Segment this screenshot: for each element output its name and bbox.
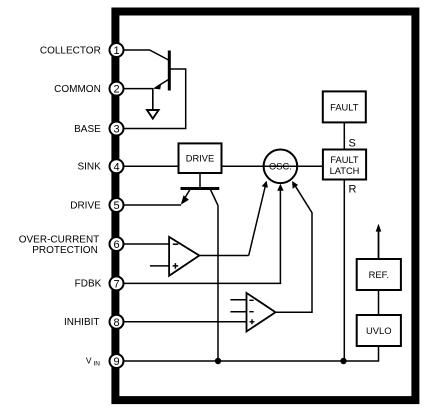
IC body border <box>115 12 415 401</box>
wire pin6 to comparator A inverting input <box>124 243 169 245</box>
wire Q1 base to pin3 <box>124 69 186 129</box>
pin 9 label VIN <box>86 356 100 368</box>
wire REF to UVLO <box>378 290 380 315</box>
transistor Q1 <box>153 51 170 91</box>
pin 3 <box>110 122 124 136</box>
stub wire comparator A non-inverting input <box>150 265 169 267</box>
svg-text:BASE: BASE <box>74 124 101 135</box>
UVLO box <box>357 315 401 346</box>
svg-text:R: R <box>349 184 357 196</box>
junction dot R-VIN <box>340 358 346 364</box>
wire Q2 collector down to VIN rail <box>217 206 219 362</box>
REF box <box>357 259 401 290</box>
wire pin5 to Q2 emitter <box>124 204 181 206</box>
pin 6 label OVER-CURRENT PROTECTION <box>19 235 100 256</box>
comparator A (over-current) <box>169 237 199 276</box>
pin 6 <box>110 237 124 251</box>
svg-text:LATCH: LATCH <box>330 166 360 176</box>
svg-text:FDBK: FDBK <box>75 279 102 290</box>
junction dot Q2-VIN <box>215 358 221 364</box>
svg-text:UVLO: UVLO <box>366 325 392 336</box>
oscillator OSC <box>264 150 298 184</box>
svg-text:OSC.: OSC. <box>269 162 292 172</box>
svg-text:5: 5 <box>113 200 119 212</box>
transistor Q2 <box>181 173 220 206</box>
wire pin8 INHIBIT to comparator B non-inverting input <box>124 321 247 323</box>
ground arrow (open) <box>147 89 159 119</box>
wire pin9 VIN rail <box>124 346 379 361</box>
wire pin7 FDBK to OSC (arrow) <box>124 184 284 284</box>
svg-text:COMMON: COMMON <box>54 84 101 95</box>
DRIVE box U2 <box>179 143 222 173</box>
stub wire comparator B input 2 <box>230 311 246 313</box>
wire DRIVE box to OSC <box>222 165 323 167</box>
pin 4 <box>110 159 124 173</box>
pin 9 <box>110 354 124 368</box>
svg-text:COLLECTOR: COLLECTOR <box>40 45 101 56</box>
wire pin4 to DRIVE box <box>124 165 179 167</box>
svg-text:IN: IN <box>94 361 101 368</box>
svg-text:DRIVE: DRIVE <box>186 154 214 164</box>
wire comparator B output to OSC (arrow) <box>276 181 313 312</box>
svg-text:2: 2 <box>113 84 119 96</box>
svg-text:9: 9 <box>113 356 119 368</box>
pin 1 <box>110 43 124 57</box>
pin 5 <box>110 198 124 212</box>
wire FAULT to FAULT LATCH (S input) <box>343 122 345 149</box>
wire REF output arrow (up) <box>376 224 382 259</box>
svg-text:FAULT: FAULT <box>330 155 359 165</box>
wire pin2 to Q1 emitter <box>124 88 153 90</box>
svg-text:4: 4 <box>113 161 119 173</box>
pin 2 <box>110 82 124 96</box>
svg-text:S: S <box>349 138 356 150</box>
stub wire comparator B input 1 <box>230 299 246 301</box>
svg-text:1: 1 <box>113 45 119 57</box>
FAULT box <box>323 91 366 122</box>
svg-text:SINK: SINK <box>77 162 101 173</box>
svg-text:INHIBIT: INHIBIT <box>64 317 100 328</box>
svg-text:FAULT: FAULT <box>330 102 359 112</box>
svg-text:DRIVE: DRIVE <box>70 200 101 211</box>
svg-text:V: V <box>86 356 92 366</box>
pin 7 <box>110 276 124 290</box>
svg-text:7: 7 <box>113 278 119 290</box>
svg-text:8: 8 <box>113 317 119 329</box>
svg-text:PROTECTION: PROTECTION <box>32 245 98 256</box>
svg-text:6: 6 <box>113 239 119 251</box>
wire comparator A output to OSC (arrow) <box>199 181 268 256</box>
wire pin1 to Q1 collector <box>124 50 170 61</box>
wire FAULT LATCH R input down to VIN rail <box>343 180 345 362</box>
svg-text:3: 3 <box>113 124 119 136</box>
pin 8 <box>110 315 124 329</box>
svg-text:REF.: REF. <box>369 269 389 280</box>
FAULT LATCH box <box>323 150 366 180</box>
comparator B (inhibit) <box>247 293 276 332</box>
